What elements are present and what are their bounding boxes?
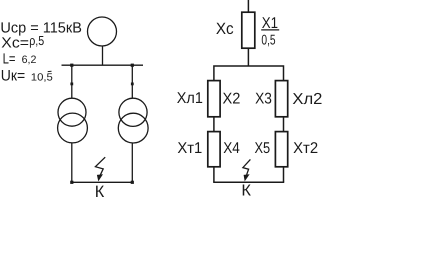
svg-text:Xc=: Xc= — [1, 36, 29, 52]
resistor X3 — [275, 81, 287, 117]
svg-text:ρ,5: ρ,5 — [29, 33, 44, 48]
svg-text:Х3: Х3 — [255, 91, 272, 108]
node junction right — [131, 64, 134, 67]
node dot on right feeder — [131, 83, 134, 86]
wire T2 to bottom bus — [131, 143, 133, 183]
transformer T2 — [118, 98, 148, 143]
node junction left — [70, 64, 73, 67]
wire bus to transformer T2 — [131, 65, 133, 98]
short-circuit arrow left — [95, 157, 105, 181]
svg-text:Хл2: Хл2 — [292, 91, 322, 108]
value label L = 6,2 — [3, 52, 37, 68]
svg-text:Uк=: Uк= — [1, 68, 26, 85]
svg-text:Хт2: Хт2 — [293, 140, 318, 157]
svg-text:10,5: 10,5 — [31, 72, 53, 83]
svg-text:6,2: 6,2 — [22, 54, 37, 66]
svg-text:L=: L= — [3, 52, 16, 68]
svg-text:0,5: 0,5 — [261, 33, 275, 49]
wire from source to bus — [102, 46, 104, 65]
label X1 (numerator) — [261, 15, 279, 49]
resistor X4 — [208, 132, 220, 167]
bottom bus wire — [71, 181, 133, 183]
wire X4 to bottom bus — [213, 167, 215, 183]
node dot on left feeder — [70, 83, 73, 86]
svg-text:Хл1: Хл1 — [177, 90, 203, 107]
top bus of equivalent circuit — [214, 66, 284, 81]
generator G (source circle) — [88, 17, 117, 46]
wire bus to transformer T1 — [71, 65, 73, 98]
svg-text:Х2: Х2 — [223, 91, 241, 108]
wire top feed — [247, 0, 249, 12]
resistor X5 — [275, 132, 287, 167]
svg-text:X1: X1 — [262, 15, 278, 32]
node junction bottom-left — [70, 181, 73, 184]
wire X1 to bus — [247, 48, 249, 66]
node junction bottom-right — [131, 181, 134, 184]
svg-text:Х5: Х5 — [255, 140, 271, 157]
resistor X2 — [208, 81, 220, 117]
top bus wire — [62, 64, 144, 66]
transformer T1 — [58, 98, 88, 143]
svg-text:Хт1: Хт1 — [177, 140, 202, 157]
value label Uk = 10,5 — [1, 68, 53, 85]
wire X5 to bottom bus — [283, 167, 285, 183]
svg-text:К: К — [95, 182, 105, 201]
svg-text:Хс: Хс — [216, 20, 234, 38]
wire T1 to bottom bus — [71, 143, 73, 183]
value label Xc = 0,5 — [1, 33, 44, 51]
wire X2 to X4 — [213, 117, 215, 132]
bottom bus of equivalent circuit — [213, 181, 284, 183]
wire X3 to X5 — [283, 117, 285, 132]
short-circuit arrow right — [243, 159, 251, 181]
svg-text:Х4: Х4 — [223, 140, 240, 157]
svg-text:К: К — [241, 183, 251, 200]
resistor X1 — [242, 12, 255, 48]
